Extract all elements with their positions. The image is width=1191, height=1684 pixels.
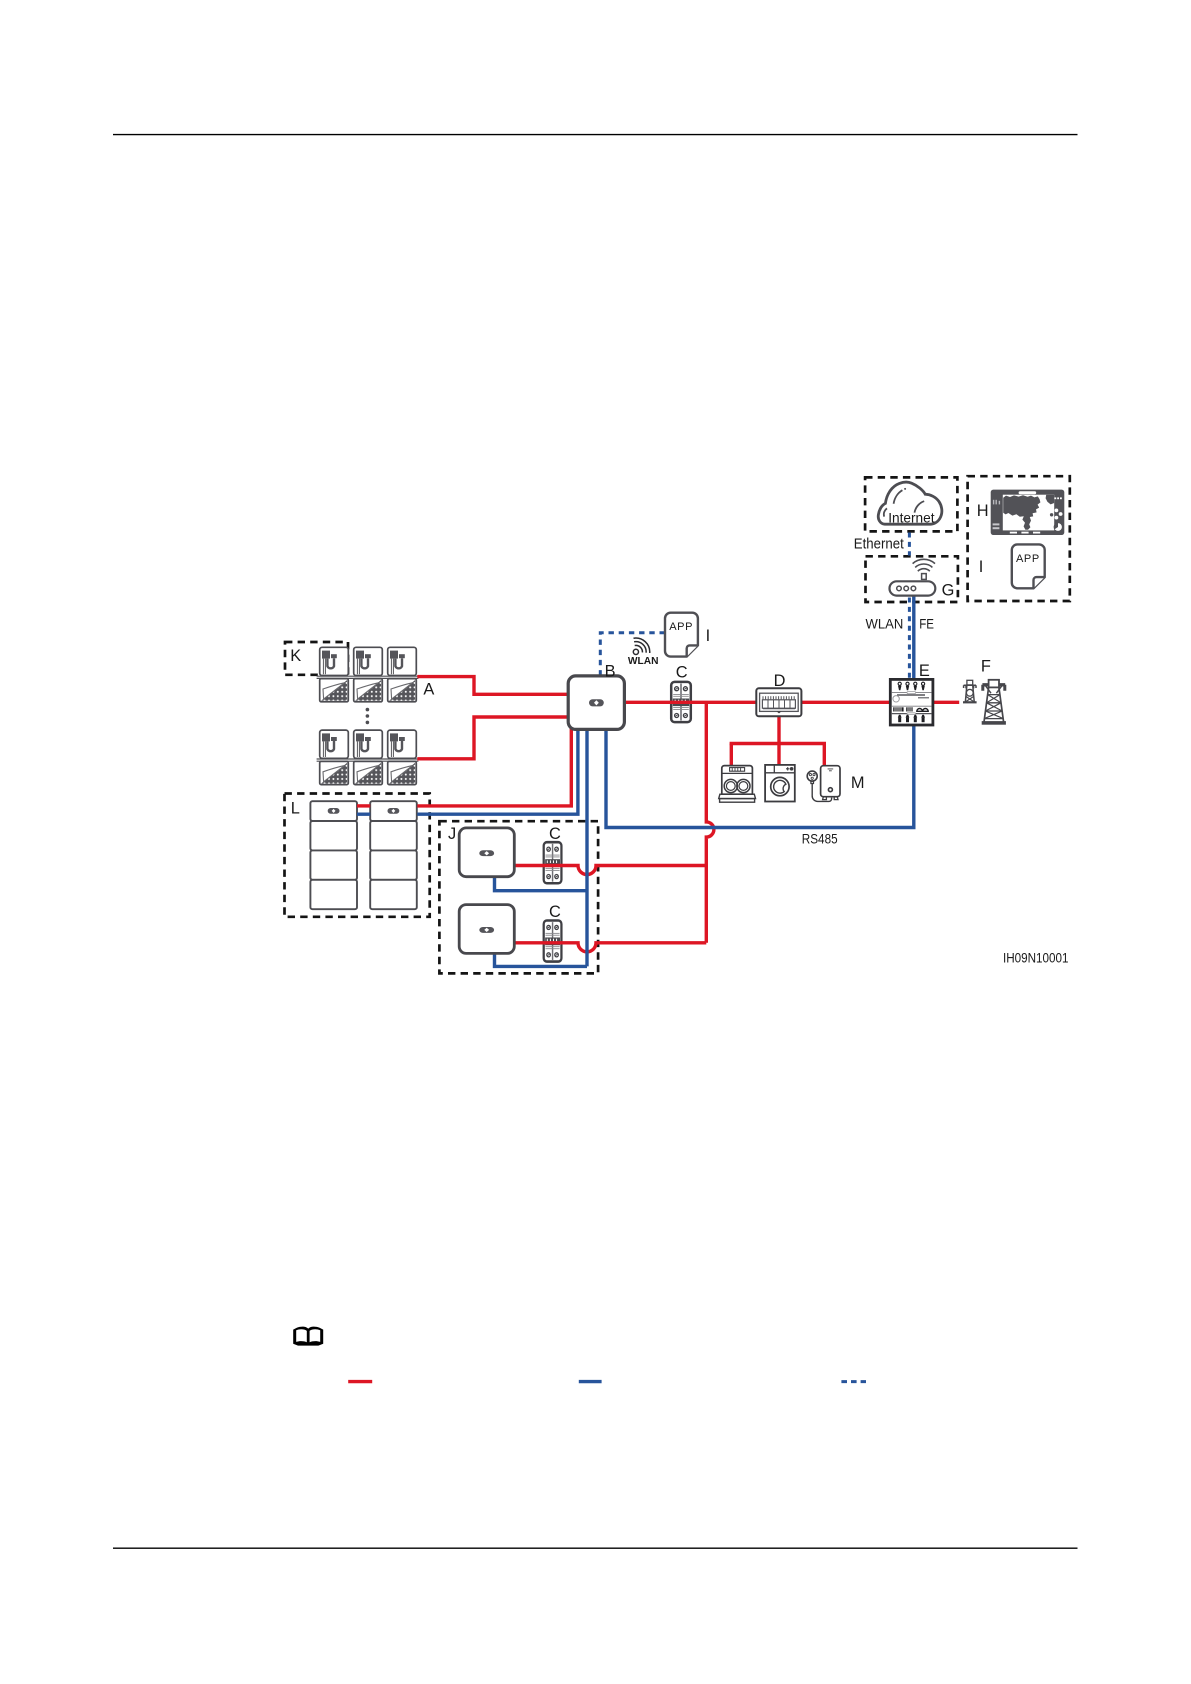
battery tower 1 pill icon: [328, 808, 340, 814]
wire PV string 2 to inverter B (red DC): [417, 717, 572, 759]
inverter B: [568, 676, 624, 730]
wire J1 comm (blue): [495, 875, 588, 891]
PV module 1 row 1 (A): [320, 647, 349, 702]
svg-text:J: J: [448, 825, 456, 843]
page top rule: [113, 134, 1078, 136]
inverter B pill logo: [589, 699, 604, 706]
svg-text:D: D: [774, 672, 786, 690]
wire drop to dishwasher (red): [730, 744, 733, 766]
dashed box K (optimizer group): [285, 642, 348, 675]
legend blue line sample: [579, 1380, 602, 1383]
wire drop to washing machine (red): [777, 744, 780, 765]
wire inverter B to battery (blue comm): [417, 726, 578, 814]
battery tower 1 (L): [310, 801, 357, 909]
wire D to appliance bus (red): [777, 715, 780, 744]
svg-text:Ethernet: Ethernet: [854, 536, 904, 552]
dishwasher (M): [719, 766, 756, 803]
svg-text:RS485: RS485: [802, 831, 838, 847]
app icon I near inverter B: [665, 613, 698, 657]
dashed box L (battery group): [285, 794, 430, 917]
wire Ethernet router to internet (blue dashed): [908, 533, 911, 556]
wifi icon near inverter B: [633, 638, 649, 654]
svg-text:G: G: [942, 582, 955, 600]
svg-text:I: I: [979, 558, 984, 576]
svg-text:FE: FE: [919, 616, 934, 631]
dashed box G (router): [866, 556, 958, 602]
inverter J2 pill logo: [479, 927, 494, 933]
wire WLAN router to meter E (blue dashed): [908, 598, 911, 679]
wire AC bus B-C-D-E-grid (red): [622, 701, 959, 704]
page bottom rule: [113, 1547, 1078, 1549]
svg-text:C: C: [676, 664, 688, 682]
router G antenna: [913, 559, 935, 579]
svg-text:L: L: [291, 799, 300, 817]
power meter E: [890, 679, 933, 725]
inverter J1 pill logo: [479, 850, 494, 856]
svg-text:F: F: [981, 658, 991, 676]
wire J2 comm (blue): [495, 952, 588, 967]
water heater with plug (M): [807, 766, 840, 802]
svg-text:H: H: [977, 502, 989, 520]
wire WLAN inverter B to app I (blue dashed): [600, 633, 664, 676]
svg-text:IH09N10001: IH09N10001: [1003, 950, 1069, 965]
battery tower 2 pill icon: [387, 808, 399, 814]
breaker C of J1: [544, 842, 562, 883]
small grid tower F: [963, 680, 977, 702]
wire PV string 1 to inverter B (red DC): [417, 677, 572, 695]
svg-text:Internet: Internet: [888, 511, 935, 526]
svg-text:C: C: [549, 903, 561, 921]
PV module 2 row 1 (A): [354, 647, 383, 702]
large grid tower F: [982, 680, 1005, 724]
svg-text:C: C: [549, 825, 561, 843]
dashed box Internet: [865, 477, 957, 531]
legend red line sample: [348, 1380, 372, 1383]
wire RS485 B to meter E (blue): [606, 723, 914, 828]
mounting rail row 2: [317, 759, 419, 761]
wire inverter B to battery (red): [417, 726, 571, 806]
washing machine (M): [765, 765, 795, 802]
wire FE router to meter E (blue): [912, 595, 915, 682]
svg-text:M: M: [851, 774, 865, 792]
svg-text:I: I: [706, 627, 711, 645]
svg-text:K: K: [290, 647, 301, 665]
note book icon: [293, 1327, 323, 1346]
wire battery tower link (red): [357, 804, 370, 807]
wire slave inverter J1 AC out with hop (red): [514, 866, 706, 875]
wire battery tower link (blue comm): [357, 813, 370, 816]
wire inverter B cascade to J inverters (blue): [585, 726, 588, 966]
wire appliance bus (red): [731, 742, 824, 744]
slave inverter J2: [459, 905, 514, 954]
ellipsis dots between PV rows: [366, 708, 370, 724]
svg-text:A: A: [423, 680, 434, 698]
dashed box J (slave inverters group): [439, 821, 598, 973]
breaker C of J2: [544, 921, 562, 962]
PV module 6 row 2 (A): [388, 730, 417, 785]
wire AC-coupled vertical with hop over RS485 (red): [706, 702, 714, 943]
internet cloud: [878, 482, 942, 524]
distribution box D: [756, 688, 801, 716]
wire drop to water heater (red): [823, 744, 826, 767]
wire slave inverter J2 AC out with hop (red): [514, 943, 706, 952]
monitoring screen H: [991, 490, 1065, 535]
PV module 4 row 2 (A): [320, 730, 349, 785]
battery tower 2 (L): [370, 801, 417, 909]
svg-text:B: B: [605, 662, 616, 680]
slave inverter J1: [459, 828, 514, 877]
legend blue dashed sample: [841, 1380, 866, 1383]
PV module 3 row 1 (A): [388, 647, 417, 702]
breaker C main: [671, 682, 691, 722]
router G body: [890, 581, 936, 595]
PV module 5 row 2 (A): [354, 730, 383, 785]
mounting rail row 1: [317, 676, 419, 678]
dashed box H I (monitoring): [968, 476, 1070, 601]
svg-text:E: E: [919, 662, 930, 680]
svg-text:WLAN: WLAN: [628, 656, 659, 667]
svg-text:WLAN: WLAN: [866, 616, 904, 631]
app icon I top right: [1012, 544, 1045, 588]
